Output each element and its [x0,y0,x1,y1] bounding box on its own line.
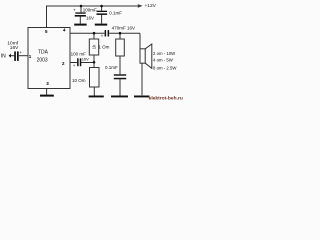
node junction C3 [100,5,103,8]
wire R3 top [119,33,121,39]
svg-text:+: + [73,63,76,68]
node junction output/R1 [93,32,96,35]
svg-text:8 om - 2.5W: 8 om - 2.5W [153,65,177,70]
ground [74,24,86,26]
wire R2 to ground [93,87,95,96]
node junction output/R3 [119,32,122,35]
capacitor C4 470mF output [101,26,135,39]
svg-text:16V: 16V [10,45,19,51]
svg-text:+12V: +12V [145,3,157,9]
node input IN [1,53,11,59]
wire input [11,55,15,57]
svg-text:16V: 16V [82,57,89,62]
node junction R1/C6/R2 [93,61,96,64]
node junction C2 [80,5,83,8]
node +12V arrow [138,3,157,9]
svg-text:+: + [101,34,104,39]
ground [111,96,128,98]
wire C5 to ground [119,79,121,95]
svg-text:470mF 16V: 470mF 16V [112,26,135,31]
wire pin3 to ground [46,89,48,95]
wire C2 to ground [79,16,81,23]
wire R3 to C5 [119,56,121,74]
resistor R2 10 Om [72,68,99,88]
ground [89,96,104,98]
wire C3 to ground [101,15,103,24]
svg-text:2 om - 10W: 2 om - 10W [153,51,176,56]
wire C2 top [80,6,82,12]
wire pin2 [70,62,77,64]
ground [134,96,150,98]
capacitor C5 0.1mF boucherot [105,65,126,79]
wire C3 top [101,6,103,11]
svg-text:TDA: TDA [38,50,49,56]
wire R1 bottom / node [93,55,95,68]
svg-text:2003: 2003 [37,58,48,64]
svg-text:1 Om: 1 Om [98,45,109,50]
svg-text:100mF: 100mF [83,8,97,13]
capacitor C2 100mF supply [73,8,97,21]
svg-text:0.1mF: 0.1mF [109,10,122,15]
svg-text:4 om - 5W: 4 om - 5W [153,57,174,62]
ground [40,95,54,97]
svg-text:IN: IN [1,53,6,59]
svg-text:16V: 16V [86,15,94,20]
wire speaker to ground [141,63,143,95]
wire R1 top [93,33,95,39]
capacitor C1 10mf input [7,41,22,61]
svg-text:elektrot-beh.ru: elektrot-beh.ru [149,95,183,100]
op-amp U1 TDA2003 [28,28,70,89]
ground [95,24,107,26]
speaker LS1 [140,44,177,70]
svg-text:10 Om: 10 Om [72,78,86,83]
svg-text:0.1mF: 0.1mF [105,65,118,70]
resistor R3 1 Om [98,39,124,56]
wire output to speaker [139,33,141,49]
wire +12V rail [47,6,140,28]
svg-text:+: + [19,50,22,55]
capacitor C3 0.1mF supply [97,10,123,15]
resistor R1 1k feedback [89,39,98,55]
capacitor C6 100mF pin2 [71,52,90,69]
svg-text:+: + [73,8,76,13]
wire pin4 output [70,32,104,34]
